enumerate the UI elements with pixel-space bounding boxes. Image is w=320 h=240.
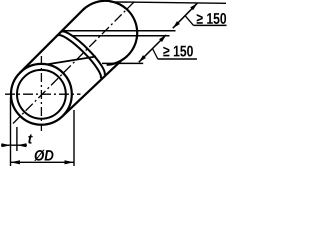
arrowhead t left (2, 143, 11, 147)
arrowhead OD right (65, 160, 75, 164)
leader line 1 (185, 16, 194, 26)
extension line L4 from lower silhouette (102, 62, 143, 64)
extension line L2 from weld at silhouette (62, 30, 176, 32)
extension line L1 from far end top (110, 2, 226, 3)
label >=150 upper (197, 13, 226, 24)
pipe lower silhouette line (63, 61, 121, 116)
bore internal tangent line (far bore seen through tube) (46, 57, 96, 65)
label OD (34, 150, 53, 161)
underline of text 2 (158, 58, 197, 60)
arrowhead dim2 lower (139, 55, 146, 62)
label t (28, 134, 33, 143)
horizontal centerline of near end (5, 93, 81, 95)
arrowhead dim1 upper (190, 3, 197, 10)
dimension line 2 oblique (139, 35, 166, 62)
dimension OD right extension line (73, 110, 75, 166)
pipe upper silhouette line (20, 8, 85, 73)
axis centerline (pipe axis, dash-dot) (13, 1, 136, 124)
pipe near end outer circle (11, 64, 72, 125)
weld seam arc 2 (58, 35, 102, 79)
underline of text 1 (194, 24, 227, 26)
arrowhead dim1 lower (173, 21, 180, 28)
dimension t right extension line (16, 127, 18, 151)
dimension line OD (11, 161, 75, 163)
arrowhead dim2 upper (159, 35, 166, 42)
arrowhead OD left (11, 160, 21, 164)
pipe far end outer circle (partial: from upper tangency over top, right, to bottom) (83, 1, 137, 65)
extension line L3 from bore edge (72, 35, 170, 37)
dimension line 1 oblique (173, 3, 198, 28)
dimension line t (1, 144, 27, 146)
pipe near end bore circle (17, 70, 66, 119)
label >=150 lower (163, 46, 193, 57)
leader line 2 (153, 49, 158, 60)
arrowhead t right (17, 143, 27, 147)
weld seam arc 1 (61, 31, 104, 74)
vertical centerline of near end (40, 56, 42, 131)
dimension t left extension line (also OD left) (10, 97, 12, 166)
